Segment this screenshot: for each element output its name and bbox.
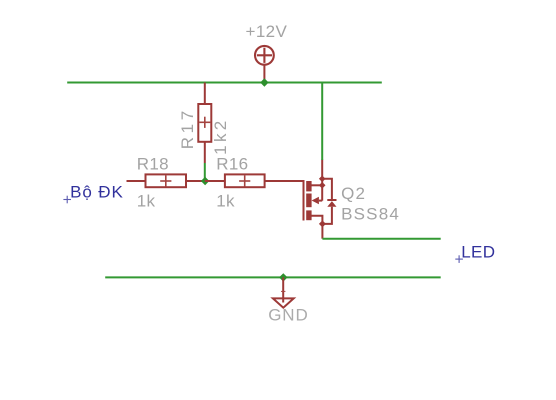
wire junction to R16 — [205, 180, 225, 182]
transistor Q2 gate bar — [303, 180, 305, 221]
svg-text:R17: R17 — [178, 107, 197, 149]
resistor R17 origin cross — [199, 117, 210, 128]
svg-text:1k2: 1k2 — [211, 117, 230, 154]
resistor R16 body — [225, 174, 265, 187]
svg-text:+12V: +12V — [246, 22, 288, 41]
label LED origin cross — [455, 255, 463, 263]
transistor Q2 channel segment bottom — [306, 210, 311, 220]
junction ground rail — [279, 273, 287, 281]
transistor Q2 channel segment middle — [306, 194, 311, 208]
svg-text:1k: 1k — [216, 191, 235, 210]
diode body branch top — [322, 179, 332, 200]
svg-text:1k: 1k — [137, 191, 156, 210]
diode cathode bar — [327, 199, 336, 201]
ground symbol origin cross — [281, 290, 285, 292]
ground symbol triangle — [273, 298, 294, 307]
resistor R17 body — [198, 104, 211, 142]
transistor Q2 source connector — [311, 184, 322, 186]
wire Q2 source to bus (green) — [321, 84, 323, 161]
diode body branch bottom — [323, 207, 332, 224]
junction mid node — [201, 177, 209, 185]
svg-text:Bộ ĐK: Bộ ĐK — [70, 182, 124, 201]
svg-text:R16: R16 — [216, 155, 248, 174]
wire drain net to LED — [322, 238, 440, 240]
svg-text:BSS84: BSS84 — [341, 205, 400, 224]
diode anode triangle — [327, 201, 336, 207]
wire R18 to junction — [186, 180, 206, 182]
resistor R16 origin cross — [239, 175, 250, 186]
transistor Q2 bulk line — [319, 200, 322, 202]
junction Q2 dot1 — [319, 176, 326, 183]
resistor R18 body — [146, 174, 187, 187]
junction +12V on bus — [260, 78, 268, 86]
wire top +12V bus — [67, 82, 382, 84]
wire R17 to mid junction (green) — [204, 163, 206, 181]
svg-text:R18: R18 — [137, 155, 169, 174]
svg-text:LED: LED — [461, 243, 495, 262]
label Bo DK origin cross — [63, 196, 71, 204]
wire R17 bottom pin — [204, 142, 206, 163]
transistor Q2 channel segment top — [306, 181, 311, 191]
supply symbol +12V circle-plus — [255, 46, 274, 65]
resistor R18 origin cross — [160, 175, 171, 186]
wire R17 top pin — [204, 83, 206, 105]
junction Q2 dot2 — [319, 182, 326, 189]
transistor Q2 bulk arrow — [312, 197, 319, 204]
svg-text:Q2: Q2 — [341, 184, 366, 203]
transistor Q2 source/bulk vertical — [321, 160, 323, 201]
wire bottom ground rail — [105, 276, 441, 278]
wire Q2 drain pin — [321, 224, 323, 239]
wire supply stub — [263, 65, 265, 83]
wire R16 to Q2 gate — [265, 180, 304, 182]
wire Bo DK to R18 — [127, 180, 146, 182]
svg-text:GND: GND — [268, 306, 308, 325]
junction Q2 drain dot — [319, 220, 326, 227]
wire GND stub — [282, 277, 284, 302]
transistor Q2 drain connector — [311, 216, 322, 224]
